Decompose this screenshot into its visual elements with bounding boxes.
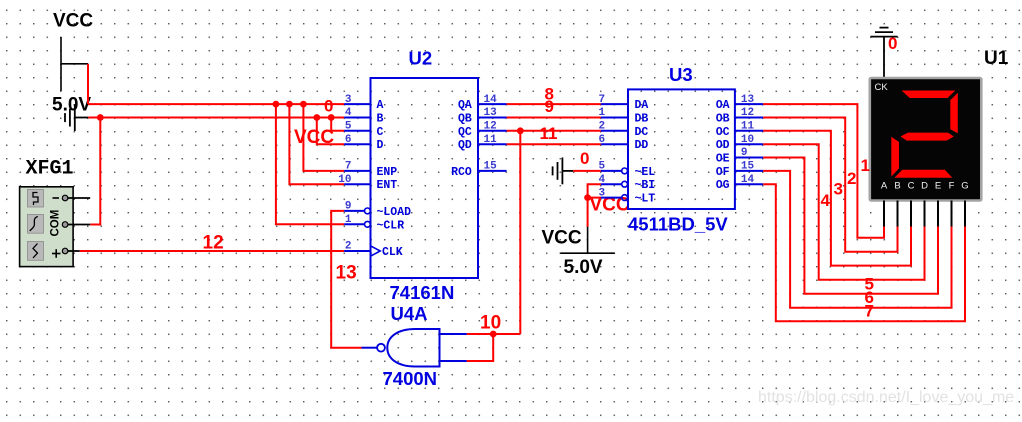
- svg-text:11: 11: [484, 134, 498, 146]
- junction node NAND input: [490, 331, 497, 338]
- svg-text:6: 6: [599, 134, 606, 146]
- svg-text:5.0V: 5.0V: [564, 257, 603, 278]
- wire net 13 (~LOAD to NAND output): [331, 211, 361, 348]
- junction node row B x=316.8: [313, 114, 320, 121]
- wire stub XFG1 minus: [68, 197, 90, 199]
- svg-text:74161N: 74161N: [390, 282, 455, 303]
- pin E stub: [937, 201, 939, 227]
- svg-text:9: 9: [545, 97, 554, 116]
- svg-text:A: A: [377, 99, 384, 112]
- wire row A (VCC net to U2 pin3): [88, 103, 344, 105]
- svg-text:10: 10: [741, 134, 754, 146]
- wire NAND input A: [467, 333, 521, 335]
- svg-text:2: 2: [345, 241, 352, 253]
- junction node row A x=289.4: [286, 101, 293, 108]
- svg-text:B: B: [894, 181, 900, 192]
- svg-text:U3: U3: [669, 64, 693, 85]
- svg-text:14: 14: [741, 174, 755, 186]
- svg-text:CK: CK: [875, 82, 889, 93]
- junction node QC branch: [517, 127, 524, 134]
- svg-text:11: 11: [741, 121, 755, 133]
- wire net 6 (OF to segment F): [763, 171, 951, 308]
- svg-text:5: 5: [345, 121, 352, 133]
- wire net 10 (QC to DC): [507, 130, 601, 132]
- svg-text:1: 1: [599, 107, 606, 119]
- wire branch to ENP (pin7): [303, 104, 344, 171]
- svg-text:7400N: 7400N: [383, 368, 438, 389]
- svg-text:7: 7: [865, 301, 874, 320]
- wire net 1 (OA to segment A): [763, 104, 884, 238]
- svg-text:14: 14: [484, 94, 498, 106]
- wire branch to D (pin6): [317, 118, 344, 145]
- svg-text:~LT: ~LT: [635, 193, 656, 206]
- svg-text:10: 10: [338, 174, 351, 186]
- segment d: [894, 170, 952, 178]
- svg-text:11: 11: [540, 124, 558, 143]
- svg-text:QA: QA: [458, 99, 472, 112]
- svg-text:DA: DA: [635, 99, 649, 112]
- svg-text:~CLR: ~CLR: [377, 219, 405, 232]
- svg-text:OE: OE: [716, 153, 730, 166]
- wire VCC net to ~BI: [588, 184, 601, 197]
- wire VCC net down to V2: [587, 198, 589, 227]
- svg-text:DC: DC: [635, 126, 649, 139]
- wire VCC net to ~LT: [588, 197, 601, 199]
- segment a: [902, 91, 956, 99]
- svg-text:5.0V: 5.0V: [52, 95, 91, 116]
- pin - of XFG1: [62, 195, 68, 201]
- svg-text:C: C: [377, 126, 384, 139]
- wire net 10 vertical to NAND inputs: [519, 131, 521, 334]
- svg-text:VCC: VCC: [294, 127, 334, 148]
- svg-text:G: G: [961, 181, 968, 192]
- wire net 3 (OC to segment C): [763, 131, 911, 266]
- wire net 11 (QD to DD): [507, 143, 601, 145]
- svg-text:6: 6: [345, 134, 352, 146]
- svg-text:12: 12: [203, 233, 224, 254]
- svg-text:DB: DB: [635, 113, 649, 126]
- svg-text:~EL: ~EL: [635, 166, 656, 179]
- wire stub XFG1 plus: [68, 250, 80, 252]
- wire NAND input B: [467, 334, 494, 361]
- svg-text:3: 3: [834, 180, 843, 199]
- svg-text:13: 13: [741, 94, 755, 106]
- svg-text:XFG1: XFG1: [26, 158, 74, 181]
- svg-text:OC: OC: [716, 126, 730, 139]
- svg-text:12: 12: [741, 107, 754, 119]
- wire net 4 (OD to segment D): [763, 144, 924, 280]
- svg-text:QC: QC: [458, 126, 472, 139]
- junction node row A x=275.9: [273, 101, 280, 108]
- svg-text:0: 0: [580, 149, 589, 168]
- svg-text:CLK: CLK: [382, 246, 403, 259]
- svg-text:1: 1: [345, 214, 352, 226]
- svg-text:COM: COM: [50, 210, 62, 237]
- svg-text:~BI: ~BI: [635, 179, 656, 192]
- svg-text:VCC: VCC: [53, 11, 93, 32]
- pin F stub: [951, 201, 953, 227]
- svg-text:D: D: [921, 181, 928, 192]
- wire VCC vertical (from VCC symbol down to row A): [87, 64, 89, 104]
- svg-text:3: 3: [345, 94, 352, 106]
- svg-text:QD: QD: [458, 139, 472, 152]
- ground GND2 (rotated, at U3 ~EL): [553, 158, 574, 185]
- pin B stub: [897, 201, 899, 227]
- svg-text:U1: U1: [984, 48, 1009, 69]
- function generator XFG1: [20, 158, 74, 267]
- wire branch to C (pin5): [331, 118, 344, 131]
- wire branch to ~CLR (pin1): [276, 104, 344, 224]
- ground GND3 (above display, rotated 180): [871, 28, 898, 78]
- svg-text:~LOAD: ~LOAD: [377, 206, 412, 219]
- svg-text:ENT: ENT: [377, 179, 398, 192]
- svg-text:RCO: RCO: [451, 166, 472, 179]
- pin C stub: [910, 201, 912, 227]
- svg-text:E: E: [935, 181, 941, 192]
- svg-text:2: 2: [599, 121, 606, 133]
- svg-text:ENP: ENP: [377, 166, 398, 179]
- svg-text:15: 15: [741, 161, 755, 173]
- svg-text:10: 10: [480, 313, 501, 334]
- svg-text:OD: OD: [716, 139, 730, 152]
- wire net 12 (XFG1 + to CLK): [80, 250, 344, 252]
- pin G stub: [964, 201, 966, 227]
- svg-text:4: 4: [821, 191, 831, 210]
- svg-text:1: 1: [861, 156, 870, 175]
- segment b: [950, 93, 958, 134]
- svg-text:7: 7: [345, 161, 352, 173]
- wire net 2 (OB to segment B): [763, 118, 897, 252]
- wire row B (net 0 to U2 pin4): [88, 117, 344, 119]
- wire stub XFG1 COM: [68, 224, 90, 226]
- ground GND1 (rotated, left of row B): [65, 104, 88, 131]
- wire branch to XFG1 COM: [90, 118, 100, 225]
- pin COM of XFG1: [62, 222, 68, 228]
- svg-text:2: 2: [847, 169, 856, 188]
- wire net 9 (QB to DB): [507, 117, 601, 119]
- svg-text:4511BD_5V: 4511BD_5V: [628, 214, 728, 235]
- svg-text:13: 13: [484, 107, 498, 119]
- svg-text:F: F: [949, 181, 955, 192]
- svg-text:4: 4: [345, 107, 352, 119]
- svg-text:OB: OB: [716, 113, 730, 126]
- wire net 7 (OG to segment G): [763, 184, 965, 321]
- svg-text:OG: OG: [716, 179, 730, 192]
- svg-text:D: D: [377, 139, 384, 152]
- svg-text:13: 13: [336, 263, 357, 284]
- pin A stub: [883, 201, 885, 227]
- decoder U3 4511BD_5V: [599, 64, 764, 235]
- svg-text:A: A: [881, 181, 888, 192]
- wire net 0 to ~EL: [573, 170, 601, 172]
- svg-text:QB: QB: [458, 113, 472, 126]
- junction node row B x=100.3: [97, 114, 104, 121]
- junction node row B x=331.2: [328, 114, 335, 121]
- power VCC V2 (below U3, rotated 180): [560, 227, 614, 253]
- seven segment display U1: [870, 78, 982, 227]
- svg-text:OF: OF: [716, 166, 730, 179]
- svg-text:OA: OA: [716, 99, 730, 112]
- svg-text:U4A: U4A: [391, 303, 428, 324]
- junction node VCC branch: [584, 194, 591, 201]
- svg-text:9: 9: [741, 147, 748, 159]
- power VCC V1 (top-left VCC rail symbol): [61, 37, 88, 91]
- svg-text:DD: DD: [635, 139, 649, 152]
- svg-text:C: C: [908, 181, 915, 192]
- svg-text:3: 3: [599, 187, 606, 199]
- junction node row A x=303.4: [300, 101, 307, 108]
- svg-text:7: 7: [599, 94, 606, 106]
- svg-text:9: 9: [345, 201, 352, 213]
- pin D stub: [924, 201, 926, 227]
- wire net 8 (QA to DA): [507, 103, 601, 105]
- svg-text:0: 0: [888, 34, 897, 53]
- wire net 5 (OE to segment E): [763, 158, 938, 294]
- svg-text:U2: U2: [409, 48, 433, 69]
- wire branch to ENT (pin10): [289, 104, 344, 184]
- pin + of XFG1: [62, 248, 68, 254]
- svg-text:https://blog.csdn.net/I_love_y: https://blog.csdn.net/I_love_you_me: [758, 389, 1014, 406]
- segment e: [891, 137, 899, 177]
- svg-text:5: 5: [599, 161, 606, 173]
- counter U2 74161N: [338, 48, 506, 304]
- svg-text:4: 4: [599, 174, 606, 186]
- segment g: [901, 133, 954, 141]
- nand gate U4A 7400N (mirrored): [362, 303, 467, 389]
- svg-text:15: 15: [484, 161, 498, 173]
- svg-text:0: 0: [324, 97, 333, 116]
- svg-text:12: 12: [484, 121, 497, 133]
- svg-text:VCC: VCC: [542, 228, 582, 249]
- svg-text:B: B: [377, 113, 384, 126]
